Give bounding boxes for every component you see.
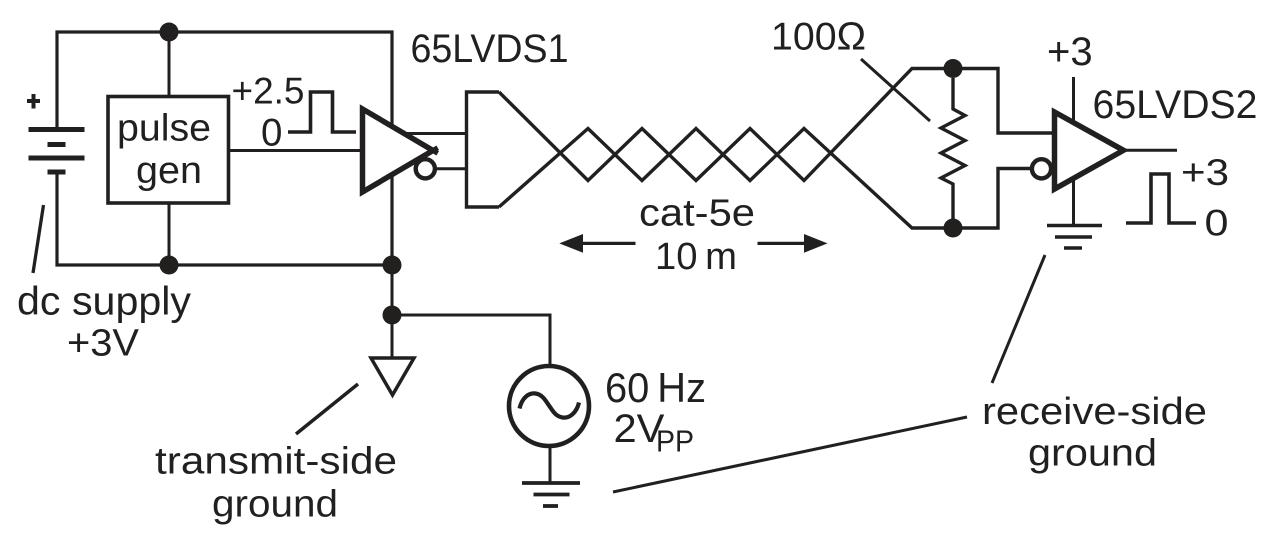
svg-text:pulse: pulse xyxy=(117,108,211,150)
svg-text:transmit-side: transmit-side xyxy=(155,440,397,482)
ground: receiver side xyxy=(1047,224,1102,228)
60Hz source circle xyxy=(509,366,589,446)
output waveform xyxy=(1126,174,1196,223)
pointer line: 100 ohm xyxy=(861,59,930,121)
svg-text:+3V: +3V xyxy=(67,323,140,365)
svg-text:100Ω: 100Ω xyxy=(771,16,866,59)
wire: branch to 60Hz source xyxy=(392,315,550,366)
arrow: right extent xyxy=(758,242,806,245)
wire: pulse gen output to driver xyxy=(229,149,365,152)
wire: driver inverting output xyxy=(434,167,466,170)
node: resistor bottom xyxy=(944,219,963,238)
svg-text:65LVDS2: 65LVDS2 xyxy=(1093,83,1258,127)
svg-text:65LVDS1: 65LVDS1 xyxy=(411,27,569,71)
wire: twisted pair line B xyxy=(499,129,1031,229)
ground: below 60Hz source xyxy=(522,481,580,485)
inversion bubble on receiver input xyxy=(1032,159,1051,178)
node: top rail junction xyxy=(160,23,179,42)
wire: twisted pair line A xyxy=(499,69,1054,181)
op-amp U2 receiver 65LVDS2: supply wire xyxy=(1072,77,1075,225)
ground: transmit-side open triangle xyxy=(371,358,414,395)
sine wave inside source xyxy=(520,393,580,417)
pulse gen box xyxy=(108,97,229,204)
resistor R1 100 ohm xyxy=(941,78,965,219)
wire: dc supply loop (top rail, right vertical, bottom rail) xyxy=(57,32,392,265)
op-amp U1 apex edge overshoot xyxy=(429,148,438,154)
op-amp U1 driver 65LVDS1 triangle xyxy=(363,109,434,192)
svg-text:10 m: 10 m xyxy=(655,236,737,278)
svg-text:+3: +3 xyxy=(1181,152,1229,193)
pointer line: transmit-side ground xyxy=(296,384,358,434)
cable connector left end xyxy=(467,92,500,207)
battery plus sign xyxy=(27,94,40,109)
pointer line: receive-side ground long xyxy=(613,417,967,492)
battery V1 plates xyxy=(29,130,85,173)
node: bottom rail at driver xyxy=(383,256,402,275)
input pulse waveform xyxy=(288,92,356,132)
node: bottom rail under pulse gen xyxy=(160,256,179,275)
wire: pulse gen bottom xyxy=(168,203,171,265)
pointer line: dc supply label xyxy=(33,205,44,273)
svg-text:60 Hz: 60 Hz xyxy=(605,364,706,411)
svg-text:+3: +3 xyxy=(1047,30,1093,74)
node: 60Hz branch junction xyxy=(383,306,402,325)
wire: transmit ground branch xyxy=(391,265,394,358)
svg-text:ground: ground xyxy=(212,483,338,525)
svg-text:0: 0 xyxy=(1205,203,1229,244)
svg-text:dc supply: dc supply xyxy=(17,280,191,324)
arrow: left extent xyxy=(582,242,636,245)
wire: source to ground xyxy=(549,446,552,483)
op-amp U2 receiver 65LVDS2 triangle xyxy=(1055,112,1124,189)
svg-text:receive-side: receive-side xyxy=(982,391,1207,433)
svg-text:PP: PP xyxy=(656,425,694,459)
wire: pulse gen top supply xyxy=(168,32,171,95)
pointer line: receive-side ground short xyxy=(992,255,1045,383)
wire: driver non-inverting output xyxy=(405,132,466,135)
inversion bubble on driver output xyxy=(416,159,435,178)
svg-text:+2.5: +2.5 xyxy=(232,71,305,112)
svg-text:cat-5e: cat-5e xyxy=(639,193,755,235)
node: resistor top xyxy=(944,59,963,78)
svg-text:ground: ground xyxy=(1028,433,1157,475)
svg-text:gen: gen xyxy=(136,150,202,192)
svg-text:0: 0 xyxy=(261,111,282,154)
wire: receiver output xyxy=(1123,149,1177,152)
